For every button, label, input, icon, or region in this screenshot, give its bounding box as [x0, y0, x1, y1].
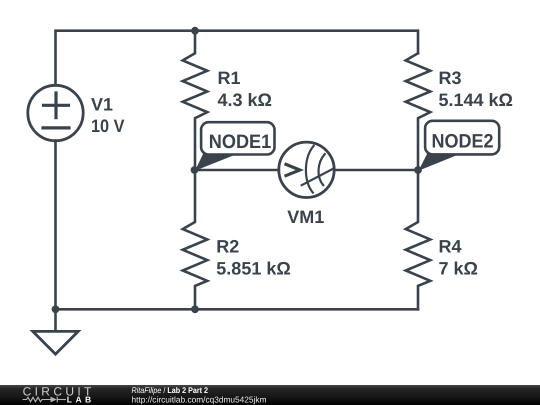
resistor R3 — [406, 53, 431, 170]
svg-text:10 V: 10 V — [91, 116, 125, 136]
junction dot NODE1 — [191, 166, 199, 174]
node NODE1 callout — [195, 122, 275, 171]
svg-text:R4: R4 — [439, 237, 462, 257]
junction dot NODE2 — [414, 166, 422, 174]
svg-text:5.144 kΩ: 5.144 kΩ — [439, 90, 514, 110]
svg-text:NODE2: NODE2 — [432, 130, 494, 152]
CircuitLab logo wordmark — [23, 385, 92, 405]
svg-text:R1: R1 — [218, 68, 241, 88]
wire left branch below V1 — [54, 141, 57, 310]
resistor R4 — [406, 170, 431, 309]
wire NODE1 to VM1 — [195, 169, 279, 172]
resistor R2 — [183, 170, 208, 309]
svg-text:R2: R2 — [216, 237, 239, 257]
svg-text:VM1: VM1 — [287, 207, 324, 227]
junction dot bottom node — [191, 305, 199, 313]
junction dot top node — [191, 27, 199, 35]
svg-text:5.851 kΩ: 5.851 kΩ — [216, 259, 290, 279]
wire VM1 to NODE2 — [334, 169, 418, 172]
svg-text:R3: R3 — [439, 68, 462, 88]
svg-text:V1: V1 — [91, 95, 113, 115]
svg-text:LAB: LAB — [67, 395, 91, 405]
voltmeter VM1 — [279, 142, 334, 197]
wire top rail — [56, 31, 419, 86]
junction dot ground node — [52, 305, 60, 313]
wire bottom rail — [56, 308, 419, 311]
resistor R1 — [183, 31, 208, 170]
node NODE2 callout — [419, 121, 500, 171]
footer bar — [0, 385, 540, 405]
svg-text:NODE1: NODE1 — [209, 131, 272, 153]
svg-text:http://circuitlab.com/cq3dmu54: http://circuitlab.com/cq3dmu5425jkm — [132, 395, 267, 405]
ground — [33, 309, 78, 354]
svg-text:4.3 kΩ: 4.3 kΩ — [218, 90, 272, 110]
svg-text:7 kΩ: 7 kΩ — [439, 259, 478, 279]
voltage source V1 — [28, 85, 83, 140]
